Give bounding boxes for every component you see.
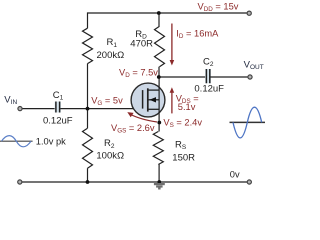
svg-text:0.12uF: 0.12uF	[43, 116, 73, 127]
wire RD branch top	[158, 13, 160, 26]
svg-text:470R: 470R	[130, 38, 153, 49]
output sine axis	[230, 121, 266, 123]
svg-text:R1: R1	[107, 37, 118, 49]
ground	[154, 184, 165, 188]
transistor Q1 MOSFET body	[131, 83, 165, 117]
terminal Vout	[248, 75, 252, 79]
svg-text:100kΩ: 100kΩ	[96, 150, 124, 161]
arrow VGS curved	[127, 112, 157, 122]
svg-text:R2: R2	[104, 138, 115, 150]
transistor Q1 drain lead	[148, 89, 159, 91]
wire C1 input side	[22, 108, 55, 110]
svg-text:ID = 16mA: ID = 16mA	[176, 28, 219, 40]
svg-text:150R: 150R	[172, 152, 195, 163]
wire C2 to Vout	[211, 76, 248, 78]
wire R2 bottom	[87, 168, 89, 182]
svg-text:5.1v: 5.1v	[178, 102, 196, 112]
arrow VDS	[170, 87, 175, 113]
svg-text:0.12uF: 0.12uF	[194, 83, 224, 94]
transistor Q1 source lead	[148, 108, 159, 110]
svg-text:RS: RS	[175, 139, 187, 151]
node source VS	[157, 121, 161, 125]
svg-text:VD = 7.5v: VD = 7.5v	[119, 67, 158, 79]
svg-text:C2: C2	[203, 56, 214, 68]
wire R1 branch top	[87, 12, 89, 28]
wire source node to RS	[158, 123, 160, 132]
node drain VD	[157, 75, 161, 79]
terminal Vin	[18, 107, 22, 111]
wire RS bottom	[158, 165, 160, 183]
capacitor C2	[205, 69, 211, 83]
wire R1 bottom to gate junction to R2 top	[87, 64, 89, 129]
node RS bottom	[157, 180, 161, 184]
resistor R2	[83, 128, 93, 168]
svg-text:0v: 0v	[230, 169, 240, 179]
transistor Q1 gate bar	[142, 90, 144, 109]
wire RD bottom to drain node	[158, 67, 160, 77]
terminal 0v right	[247, 180, 251, 184]
transistor Q1 bulk lead with arrow	[148, 99, 159, 101]
svg-text:VG = 5v: VG = 5v	[91, 96, 123, 108]
svg-text:1.0v pk: 1.0v pk	[36, 137, 66, 147]
wire VDD top rail	[88, 12, 247, 14]
node R2 bottom	[86, 180, 90, 184]
input sine wave	[2, 136, 32, 147]
svg-text:VDD = 15v: VDD = 15v	[198, 1, 239, 13]
wire 0v bottom rail	[22, 181, 247, 183]
svg-text:VS = 2.4v: VS = 2.4v	[163, 117, 202, 129]
svg-text:C1: C1	[53, 90, 64, 102]
terminal 0v left	[18, 180, 22, 184]
wire drain node to C2	[159, 76, 206, 78]
svg-text:200kΩ: 200kΩ	[97, 50, 125, 61]
svg-text:VIN: VIN	[4, 95, 17, 107]
output sine wave	[233, 107, 262, 138]
wire gate	[88, 108, 143, 110]
node top rail junction	[157, 11, 161, 15]
resistor RS	[153, 132, 163, 165]
resistor RD	[155, 26, 165, 66]
wire drain-source vertical through MOSFET	[158, 77, 160, 123]
transistor Q1 channel bar	[147, 88, 149, 111]
input sine axis	[0, 140, 33, 142]
node gate junction	[86, 107, 90, 111]
wire C1 to gate junction	[60, 108, 87, 110]
svg-text:VGS = 2.6v: VGS = 2.6v	[111, 123, 155, 135]
svg-text:VOUT: VOUT	[244, 60, 264, 72]
resistor R1	[83, 28, 93, 63]
capacitor C1	[55, 102, 61, 113]
terminal VDD	[247, 11, 251, 15]
arrow ID current	[170, 24, 175, 66]
